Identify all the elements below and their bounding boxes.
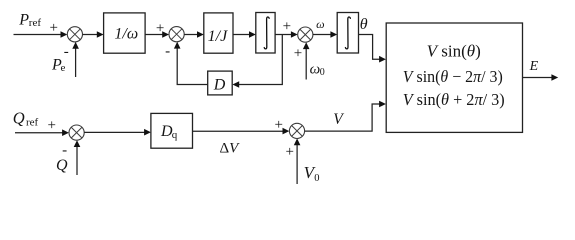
svg-text:1/ω: 1/ω (114, 26, 138, 43)
svg-text:V: V (333, 111, 344, 128)
svg-text:q: q (172, 129, 178, 141)
svg-text:+: + (286, 144, 294, 160)
svg-text:V sin(θ + 2π/ 3): V sin(θ + 2π/ 3) (403, 90, 505, 109)
svg-text:-: - (64, 44, 69, 60)
svg-text:V sin(θ): V sin(θ) (427, 41, 481, 60)
svg-text:Q: Q (13, 109, 25, 128)
svg-text:Q: Q (56, 157, 68, 174)
svg-text:+: + (275, 117, 283, 133)
svg-text:D: D (213, 76, 226, 93)
svg-text:+: + (294, 46, 302, 62)
svg-text:ref: ref (29, 17, 42, 29)
svg-text:ΔV: ΔV (220, 141, 241, 157)
svg-text:1/J: 1/J (208, 28, 228, 45)
svg-text:E: E (529, 59, 539, 74)
svg-text:e: e (61, 62, 66, 74)
svg-text:0: 0 (314, 173, 319, 184)
svg-text:ω: ω (310, 62, 321, 78)
svg-text:0: 0 (320, 67, 325, 78)
svg-text:-: - (165, 44, 170, 60)
svg-text:+: + (283, 19, 291, 35)
svg-text:+: + (48, 118, 56, 134)
svg-text:θ: θ (360, 16, 368, 33)
svg-text:ω: ω (316, 17, 324, 31)
svg-text:ref: ref (26, 116, 39, 128)
svg-text:+: + (50, 20, 58, 36)
svg-text:P: P (18, 12, 29, 29)
svg-text:V sin(θ − 2π/ 3): V sin(θ − 2π/ 3) (403, 67, 503, 86)
svg-text:+: + (156, 21, 164, 37)
